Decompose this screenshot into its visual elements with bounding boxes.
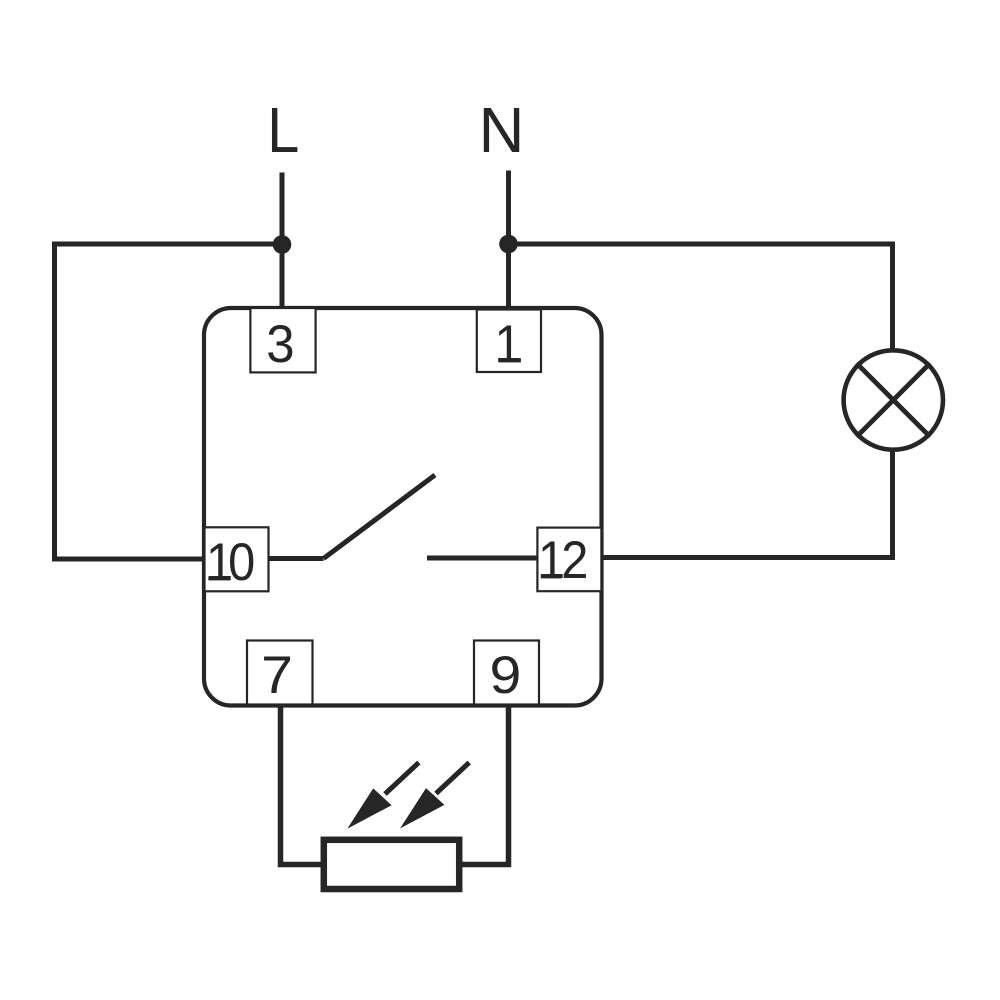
photoresistor R1	[324, 840, 459, 889]
svg-text:N: N	[479, 95, 525, 166]
svg-text:3: 3	[266, 315, 294, 374]
light arrow 1	[347, 763, 419, 829]
wire terminal 9 to photoresistor	[462, 705, 509, 865]
svg-text:9: 9	[489, 645, 521, 705]
node N junction	[499, 235, 518, 254]
terminal 1	[477, 310, 541, 374]
wire left loop from L junction to terminal 10	[55, 244, 283, 559]
svg-text:L: L	[267, 94, 299, 165]
label L	[267, 94, 299, 165]
node L junction	[273, 235, 292, 254]
wire N lead	[506, 171, 511, 311]
wire terminal 7 to photoresistor	[281, 705, 322, 865]
terminal 12	[537, 528, 601, 592]
svg-text:7: 7	[261, 645, 293, 705]
device box	[204, 308, 602, 706]
lamp E1	[844, 350, 943, 449]
svg-text:0: 0	[228, 532, 255, 591]
wire top right from N junction to lamp	[509, 244, 893, 351]
wire L lead	[280, 173, 285, 311]
svg-text:2: 2	[561, 530, 588, 589]
switch contact between terminal 10 and terminal 12	[269, 475, 538, 559]
terminal 3	[250, 308, 315, 374]
terminal 9	[474, 641, 539, 705]
label N	[479, 95, 525, 166]
light arrow 2	[400, 763, 469, 829]
wire lamp to terminal 12	[601, 449, 893, 558]
terminal 7	[247, 641, 313, 705]
svg-text:1: 1	[494, 314, 521, 373]
terminal 10	[205, 527, 269, 591]
